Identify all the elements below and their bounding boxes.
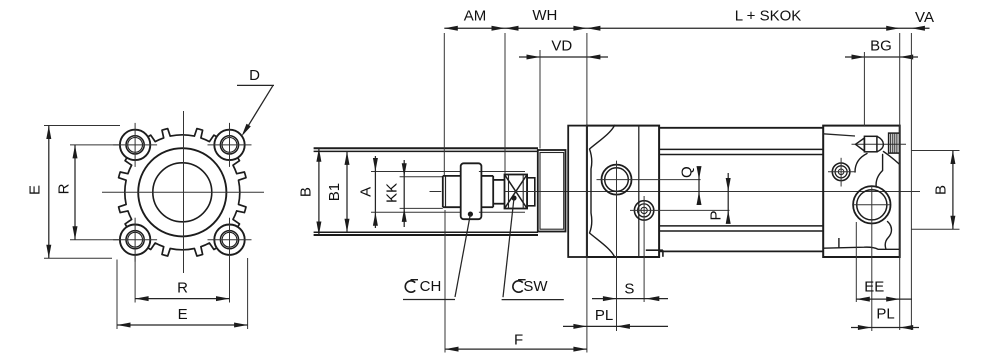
- svg-text:E: E: [178, 306, 188, 323]
- svg-text:R: R: [55, 183, 72, 194]
- svg-text:SW: SW: [523, 278, 548, 295]
- svg-text:CH: CH: [420, 278, 442, 295]
- svg-text:R: R: [177, 280, 188, 297]
- svg-text:KK: KK: [383, 183, 400, 203]
- svg-text:D: D: [249, 67, 260, 84]
- svg-text:F: F: [514, 331, 523, 348]
- svg-text:E: E: [27, 185, 44, 195]
- svg-text:A: A: [357, 187, 374, 197]
- svg-text:P: P: [707, 210, 724, 220]
- svg-text:Q: Q: [678, 166, 695, 178]
- svg-text:BG: BG: [870, 37, 892, 54]
- svg-text:VA: VA: [915, 9, 934, 26]
- svg-text:AM: AM: [464, 8, 487, 25]
- svg-text:WH: WH: [532, 7, 557, 24]
- svg-text:B: B: [297, 187, 314, 197]
- svg-text:B1: B1: [326, 183, 343, 201]
- svg-text:S: S: [624, 280, 634, 297]
- svg-text:EE: EE: [864, 279, 884, 296]
- svg-text:L + SKOK: L + SKOK: [735, 8, 802, 25]
- svg-text:VD: VD: [551, 38, 572, 55]
- svg-text:PL: PL: [876, 305, 894, 322]
- svg-text:B: B: [932, 185, 949, 195]
- svg-text:PL: PL: [595, 307, 613, 324]
